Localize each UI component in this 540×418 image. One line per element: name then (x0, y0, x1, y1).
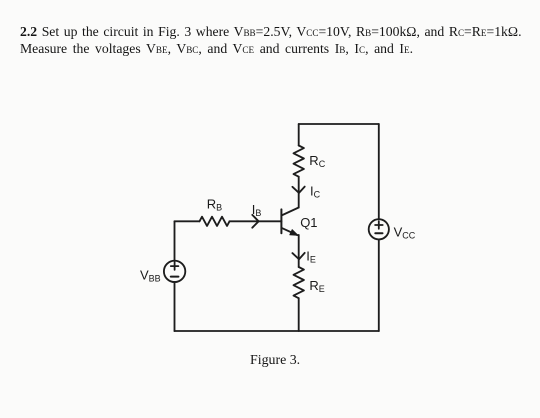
current arrow IE (292, 253, 304, 259)
transistor Q1 (281, 208, 298, 236)
source VBB (164, 261, 185, 282)
wire: collector branch top (top rail to RC) (298, 124, 300, 146)
current arrow IB (252, 215, 258, 228)
caption Figure 3. (250, 353, 300, 370)
wire: bottom rail (175, 330, 379, 332)
wire: top rail (299, 123, 379, 125)
wire: base (left rail to RB) (175, 220, 200, 222)
wire: emitter branch (transistor to RE) (298, 235, 300, 267)
wire: right rail top (top rail to VCC) (378, 124, 380, 219)
wire: emitter branch bottom (RE to bottom rail) (298, 298, 300, 331)
svg-text:IE: IE (306, 248, 316, 264)
resistor RB (200, 217, 230, 226)
wire: right rail bottom (VCC to bottom rail) (378, 240, 380, 332)
svg-text:VBB: VBB (140, 268, 161, 284)
problem statement text line 1 (20, 24, 522, 42)
problem statement text line 2 (20, 41, 413, 59)
svg-text:IC: IC (310, 184, 321, 200)
svg-text:Q1: Q1 (300, 215, 317, 230)
resistor RC (294, 146, 304, 177)
svg-text:VCC: VCC (394, 225, 416, 241)
svg-text:IB: IB (252, 202, 262, 218)
source VCC (369, 219, 389, 239)
wire: left rail top (base to VBB) (174, 221, 176, 261)
svg-text:RE: RE (309, 278, 324, 294)
wire: base (RB to transistor) (230, 220, 282, 222)
current arrow IC (292, 187, 304, 193)
svg-text:RC: RC (309, 153, 325, 169)
svg-text:RB: RB (207, 197, 222, 213)
wire: left rail bottom (VBB to bottom rail) (174, 282, 176, 331)
wire: collector branch (RC to transistor) (298, 177, 300, 208)
resistor RE (294, 267, 304, 298)
